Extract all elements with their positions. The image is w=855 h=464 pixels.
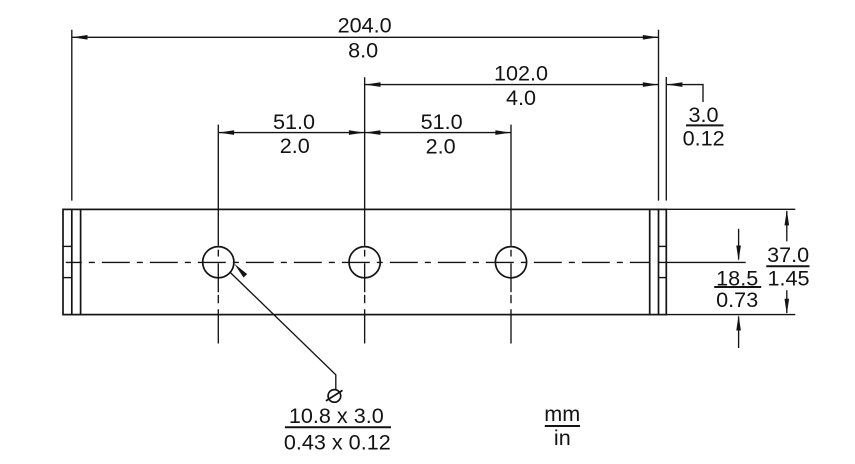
svg-text:51.0: 51.0 [421,109,463,134]
hole 2 [349,247,380,278]
dimension 204.0 arrows [72,35,658,40]
hole callout arrowhead [234,264,247,278]
svg-text:in: in [554,425,571,450]
right end cap ticks [659,246,667,277]
left inner feature line [80,209,82,314]
hole 1 vertical centerline [217,209,219,343]
fraction bar 37.0/1.45 [766,265,809,267]
hole callout leader line [230,272,336,389]
dimension 18.5 upper arrowhead [736,246,741,262]
svg-text:102.0: 102.0 [494,60,548,85]
extension line right for 204/102 [658,30,660,201]
dimension 51.0 right line [365,132,511,134]
bottom edge extension line [666,314,795,316]
extension line hole 1 [217,125,219,210]
svg-text:1.45: 1.45 [767,266,809,291]
svg-text:3.0: 3.0 [688,102,718,127]
svg-text:0.43 x 0.12: 0.43 x 0.12 [284,430,391,455]
left end cap ticks [63,246,72,277]
left end cap line [71,209,73,314]
diameter symbol [326,390,343,403]
top edge extension line [666,208,795,210]
dimension 51.0 left line [219,132,365,134]
svg-text:mm: mm [544,401,580,426]
hole 3 [495,247,526,278]
svg-text:10.8 x 3.0: 10.8 x 3.0 [289,403,384,428]
dimension 18.5 lower arrow line [738,317,740,349]
fraction bar hole size [285,426,391,428]
dimension 18.5 upper arrow line [738,229,740,260]
svg-text:8.0: 8.0 [348,37,378,62]
dimension 37.0 lower arrow line [786,290,788,313]
svg-text:204.0: 204.0 [338,13,392,38]
dimension 18.5 lower arrowhead [736,315,741,331]
dimension 102.0 line [365,84,658,86]
hole 2 vertical centerline [364,209,366,343]
svg-text:0.12: 0.12 [683,126,725,151]
right inner feature line [649,209,651,314]
dimension 51.0 left arrows [219,130,365,135]
svg-text:2.0: 2.0 [280,133,310,158]
units fraction bar [545,425,580,427]
extension line right edge for 3.0 [665,77,667,201]
dimension 3.0 arrow [667,82,683,87]
right end cap line [658,209,660,314]
svg-text:0.73: 0.73 [716,287,758,312]
dimension 204.0 line [72,36,658,38]
hole 3 vertical centerline [510,209,512,343]
svg-text:51.0: 51.0 [273,109,315,134]
svg-text:37.0: 37.0 [767,242,809,267]
svg-text:4.0: 4.0 [506,85,536,110]
fraction bar 3.0/0.12 [686,124,724,126]
dimension 51.0 right arrows [365,130,511,135]
hole 1 [203,247,234,278]
dimension 37.0 upper arrowhead [785,210,790,226]
horizontal centerline [66,261,651,263]
dimension 37.0 upper arrow line [786,211,788,241]
dimension 3.0 leader line [667,85,703,102]
plate outline [63,209,666,314]
extension line left for 204 [71,30,73,201]
extension line hole 2 [364,77,366,209]
dimension 37.0 lower arrowhead [785,299,790,315]
fraction bar 18.5/0.73 [714,286,761,288]
dimension 102.0 arrows [365,82,658,87]
extension line hole 3 [510,125,512,210]
svg-text:2.0: 2.0 [426,133,456,158]
